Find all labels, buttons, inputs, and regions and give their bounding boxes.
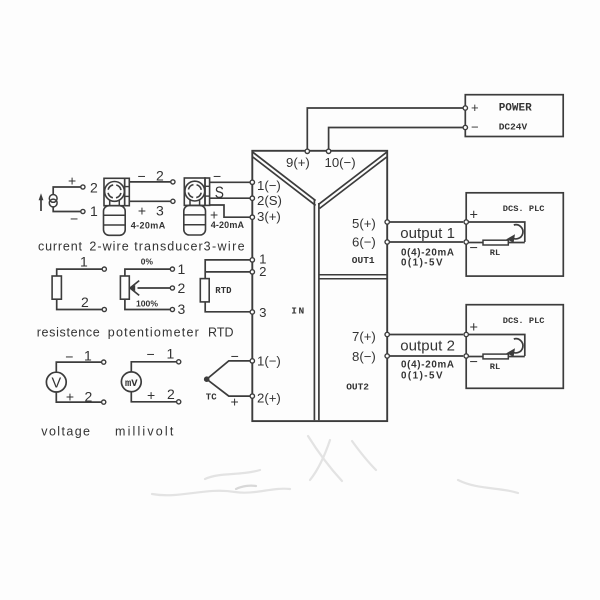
svg-text:7(+): 7(+) xyxy=(352,329,376,344)
terminal 3 RTD input xyxy=(250,310,254,314)
transducer T1 face circle xyxy=(105,182,125,202)
wire T2 S to terminal 2(S) xyxy=(210,197,250,199)
terminal + of POWER xyxy=(463,106,467,110)
svg-text:1(−): 1(−) xyxy=(257,353,281,368)
svg-text:DC24V: DC24V xyxy=(499,121,528,132)
terminal 2(S) input xyxy=(250,196,254,200)
current direction arrow in DCS2 xyxy=(506,339,523,357)
svg-text:OUT1: OUT1 xyxy=(352,255,375,266)
terminal - of POWER xyxy=(463,125,467,129)
voltmeter V1 circle xyxy=(46,372,66,392)
terminal 1 current xyxy=(81,209,85,213)
svg-text:DCS. PLC: DCS. PLC xyxy=(503,316,545,326)
svg-text:mV: mV xyxy=(125,378,138,390)
svg-text:3-wire: 3-wire xyxy=(204,240,245,254)
terminal 3 of RP1 xyxy=(170,307,174,311)
svg-text:RTD: RTD xyxy=(215,286,232,296)
wire DCS2 loop bottom left xyxy=(469,356,483,358)
transducer T2 body xyxy=(184,205,206,235)
svg-text:6(−): 6(−) xyxy=(352,235,376,250)
svg-text:resistence: resistence xyxy=(37,326,100,340)
transducer T1 inner arcs xyxy=(108,185,121,198)
svg-text:3: 3 xyxy=(156,203,164,219)
current source CS1 arrow xyxy=(39,193,44,211)
wire R1 bottom to terminal 2 xyxy=(57,299,102,309)
isolator Y divider right diagonal xyxy=(318,152,386,208)
wire power + to pin 9 xyxy=(307,108,465,149)
wire output 5(+) xyxy=(390,221,463,223)
terminal 2 of RP1 xyxy=(170,286,174,290)
terminal 2(+) TC input xyxy=(250,394,254,398)
potentiometer RP1 body xyxy=(120,276,129,299)
svg-text:1: 1 xyxy=(178,261,186,277)
svg-text:V: V xyxy=(52,375,62,391)
millivoltmeter mV1 circle xyxy=(121,372,141,392)
terminal 2 of T1 xyxy=(171,180,175,184)
wire V1 + to terminal 2 xyxy=(56,392,101,402)
svg-text:2-wire transducer: 2-wire transducer xyxy=(89,240,202,254)
svg-text:−: − xyxy=(231,348,239,364)
svg-text:millivolt: millivolt xyxy=(115,425,174,439)
wire mV1 + to terminal 2 xyxy=(131,392,176,402)
terminal - of DCS2 xyxy=(464,354,468,358)
terminal 2 of V1 xyxy=(102,400,106,404)
svg-text:−: − xyxy=(213,168,221,184)
svg-text:+: + xyxy=(470,208,478,224)
DCS PLC box 1 xyxy=(466,193,563,276)
load resistor RL2 xyxy=(483,354,508,359)
resistor R1 (resistance) xyxy=(52,276,61,299)
RTD resistor body xyxy=(200,279,209,302)
svg-text:2: 2 xyxy=(81,294,89,310)
svg-text:+: + xyxy=(138,202,146,218)
svg-text:4-20mA: 4-20mA xyxy=(211,220,245,230)
svg-text:10(−): 10(−) xyxy=(325,155,356,170)
svg-text:−: − xyxy=(470,241,478,257)
thermocouple TC junction dot xyxy=(204,376,210,382)
wire DCS2 loop top xyxy=(469,335,525,357)
wire T2 + to terminal 3(+) xyxy=(210,205,250,217)
wire output 8(-) xyxy=(390,355,463,357)
terminal 3(+) input xyxy=(250,215,254,219)
wire DCS1 loop bottom left xyxy=(469,242,483,244)
svg-text:2(S): 2(S) xyxy=(257,193,282,208)
svg-text:POWER: POWER xyxy=(499,103,532,115)
thermocouple TC wires xyxy=(207,361,250,396)
svg-text:RTD: RTD xyxy=(208,326,234,340)
wire DCS1 loop top xyxy=(469,222,525,242)
isolator block U1 outline xyxy=(252,151,387,421)
svg-text:−: − xyxy=(138,168,146,184)
terminal 5(+) output xyxy=(385,220,389,224)
wire DCS2 loop bottom right xyxy=(508,356,525,358)
svg-text:2: 2 xyxy=(167,386,175,402)
svg-text:DCS. PLC: DCS. PLC xyxy=(503,204,545,214)
svg-text:+: + xyxy=(471,100,479,115)
terminal 8(-) output xyxy=(385,354,389,358)
terminal 1 of mV1 xyxy=(177,360,181,364)
transducer T2 face circle xyxy=(185,181,205,201)
wire R1 top to terminal 1 xyxy=(57,269,102,276)
svg-text:1: 1 xyxy=(167,345,175,361)
divider between OUT1 and OUT2 xyxy=(319,275,387,279)
svg-text:+: + xyxy=(68,173,76,189)
transducer T2 neck xyxy=(190,199,200,206)
svg-text:2: 2 xyxy=(85,388,93,404)
terminal 1 of RP1 xyxy=(170,267,174,271)
svg-text:100%: 100% xyxy=(136,298,158,308)
terminal 6(-) output xyxy=(385,240,389,244)
terminal 2 current xyxy=(81,185,85,189)
wire T1 - to terminal 2 xyxy=(129,181,170,183)
svg-text:−: − xyxy=(470,355,478,371)
svg-text:2: 2 xyxy=(156,168,164,184)
svg-text:voltage: voltage xyxy=(41,425,90,439)
svg-text:TC: TC xyxy=(206,392,217,402)
svg-text:1(−): 1(−) xyxy=(257,178,281,193)
wire V1 - to terminal 1 xyxy=(56,362,101,372)
svg-text:0(1)-5V: 0(1)-5V xyxy=(401,258,443,269)
svg-text:0(1)-5V: 0(1)-5V xyxy=(401,370,443,381)
svg-text:3: 3 xyxy=(178,301,186,317)
wire output 6(-) xyxy=(390,241,463,243)
svg-text:2(+): 2(+) xyxy=(257,391,281,406)
svg-text:5(+): 5(+) xyxy=(352,216,376,231)
svg-text:output 2: output 2 xyxy=(400,337,455,354)
svg-text:0%: 0% xyxy=(141,256,154,266)
labels layer xyxy=(257,155,376,405)
potentiometer RP1 wiper arrow xyxy=(130,281,170,296)
svg-text:+: + xyxy=(470,320,478,336)
wire T2 - to terminal 1(-) xyxy=(210,181,250,183)
wire power - to pin 10 xyxy=(329,128,466,150)
svg-text:2: 2 xyxy=(90,179,98,195)
svg-text:1: 1 xyxy=(84,347,92,363)
svg-text:S: S xyxy=(215,184,224,202)
terminal - of DCS1 xyxy=(464,240,468,244)
terminal 1(-) TC input xyxy=(250,359,254,363)
transducer T1 terminal bar xyxy=(125,178,130,205)
wire mV1 - to terminal 1 xyxy=(131,362,176,372)
terminal 2 of mV1 xyxy=(177,400,181,404)
transducer T1 neck xyxy=(110,200,120,207)
wire T1 + to terminal 3 xyxy=(129,200,170,202)
terminal + of DCS1 xyxy=(464,220,468,224)
load resistor RL1 xyxy=(483,240,508,245)
svg-text:OUT2: OUT2 xyxy=(346,381,369,392)
terminal 2 of R1 xyxy=(102,307,106,311)
svg-text:+: + xyxy=(147,387,155,403)
transducer T1 (2-wire) head square xyxy=(104,178,125,205)
wire output 7(+) xyxy=(390,334,463,336)
wire current + to terminal 2 xyxy=(53,187,80,195)
svg-text:2: 2 xyxy=(259,264,266,279)
transducer T2 terminal bar xyxy=(205,178,210,205)
wire RP1 bottom to terminal 3 xyxy=(125,299,170,309)
isolator Y divider vertical channel xyxy=(314,200,319,421)
isolator Y divider left diagonal xyxy=(253,152,316,205)
terminal 3 of T1 xyxy=(171,199,175,203)
terminal 1(-) input xyxy=(250,180,254,184)
wire RTD to terminal 3 xyxy=(205,302,250,312)
svg-text:3(+): 3(+) xyxy=(257,209,281,224)
terminal 2 RTD input xyxy=(250,270,254,274)
current source CS1 symbol xyxy=(49,195,57,207)
svg-text:2: 2 xyxy=(178,280,186,296)
svg-text:1: 1 xyxy=(90,203,98,219)
DCS PLC box 2 xyxy=(466,305,563,389)
transducer T1 body xyxy=(104,206,126,236)
svg-text:+: + xyxy=(231,393,239,409)
transducer T2 inner arcs xyxy=(188,185,201,198)
svg-text:4-20mA: 4-20mA xyxy=(131,221,166,231)
svg-text:9(+): 9(+) xyxy=(286,155,310,170)
current direction arrow in DCS1 xyxy=(506,225,523,243)
svg-text:0(4)-20mA: 0(4)-20mA xyxy=(401,360,454,371)
terminal 10 on isolator top xyxy=(326,149,330,153)
svg-text:potentiometer: potentiometer xyxy=(108,326,199,340)
svg-text:+: + xyxy=(66,388,74,404)
svg-text:8(−): 8(−) xyxy=(352,349,376,364)
wire DCS1 loop bottom right xyxy=(508,242,525,244)
power supply box POWER DC24V xyxy=(465,95,563,137)
svg-text:RL: RL xyxy=(490,248,500,258)
transducer T2 (3-wire) head square xyxy=(184,178,205,205)
svg-text:3: 3 xyxy=(259,305,266,320)
svg-text:−: − xyxy=(147,346,155,362)
svg-text:−: − xyxy=(65,348,73,364)
terminal 1 of V1 xyxy=(102,360,106,364)
wire RP1 top to terminal 1 xyxy=(125,269,170,276)
svg-text:output 1: output 1 xyxy=(400,225,455,242)
wire current - to terminal 1 xyxy=(53,207,80,212)
terminal 1 RTD input xyxy=(250,258,254,262)
svg-text:−: − xyxy=(70,211,78,227)
terminal 1 of R1 xyxy=(102,267,106,271)
wire RTD to terminal 1 xyxy=(205,260,250,279)
svg-text:1: 1 xyxy=(80,254,88,270)
terminal + of DCS2 xyxy=(464,332,468,336)
terminal 7(+) output xyxy=(385,332,389,336)
faint watermark strokes xyxy=(152,436,518,495)
svg-text:current: current xyxy=(38,240,83,254)
svg-text:RL: RL xyxy=(490,362,500,372)
svg-text:IN: IN xyxy=(291,306,305,317)
svg-text:−: − xyxy=(471,120,479,135)
terminal 9 on isolator top xyxy=(305,149,309,153)
wire RTD to terminal 2 xyxy=(205,271,250,273)
